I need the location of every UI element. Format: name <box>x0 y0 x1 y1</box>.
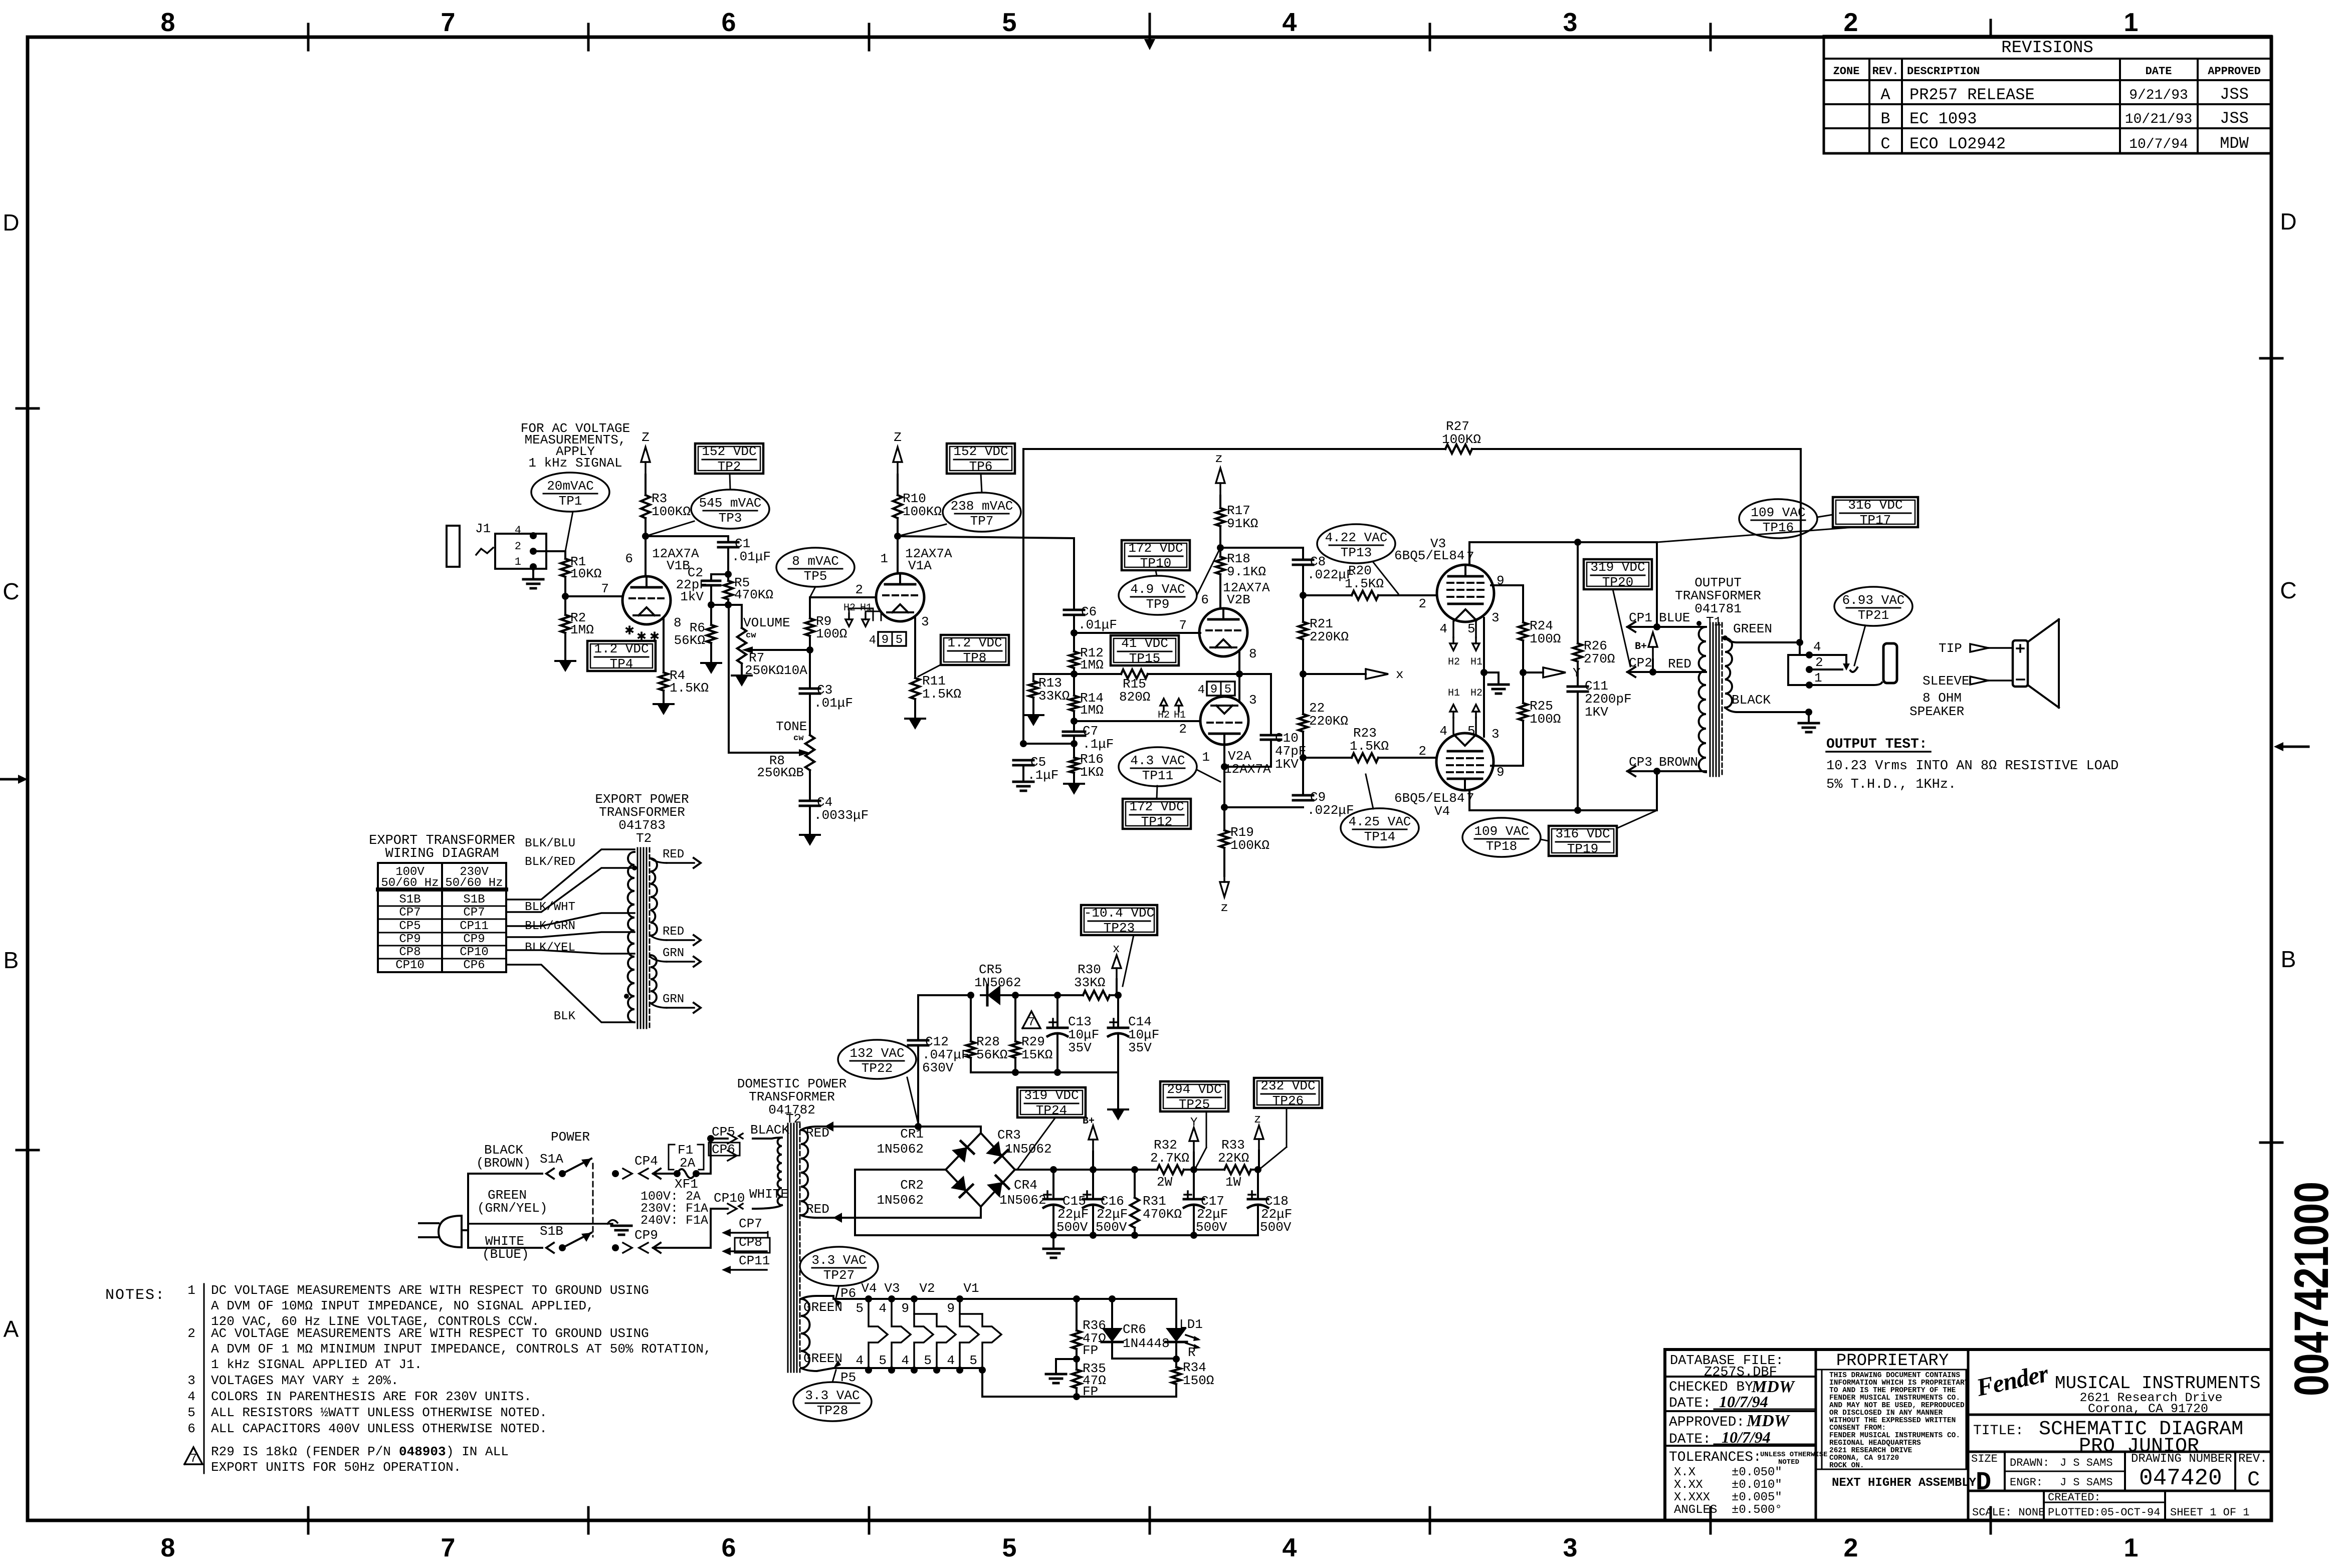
svg-text:-10.4 VDC: -10.4 VDC <box>1084 906 1154 921</box>
test point TP13 ellipse <box>1317 524 1395 563</box>
svg-text:2621 RESEARCH DRIVE: 2621 RESEARCH DRIVE <box>1829 1447 1912 1455</box>
svg-text:6: 6 <box>187 1421 195 1436</box>
svg-text:x: x <box>1396 667 1404 682</box>
heater secondary winding <box>801 1299 810 1368</box>
svg-text:PLOTTED:05-OCT-94: PLOTTED:05-OCT-94 <box>2048 1506 2160 1519</box>
svg-text:z: z <box>1220 900 1228 915</box>
svg-text:RED: RED <box>1668 656 1691 671</box>
svg-text:WITHOUT THE EXPRESSED WRITTEN: WITHOUT THE EXPRESSED WRITTEN <box>1829 1417 1956 1425</box>
test point TP18 ellipse <box>1462 818 1541 857</box>
svg-text:S1A: S1A <box>540 1152 563 1167</box>
svg-text:1MΩ: 1MΩ <box>570 622 594 637</box>
svg-text:TP27: TP27 <box>823 1268 855 1283</box>
svg-text:TP26: TP26 <box>1272 1093 1304 1108</box>
svg-text:TP15: TP15 <box>1129 651 1160 666</box>
svg-text:10/7/94: 10/7/94 <box>1719 1393 1768 1411</box>
svg-text:FP: FP <box>1083 1343 1098 1358</box>
svg-text:6: 6 <box>1201 592 1209 607</box>
svg-text:CP1: CP1 <box>1629 610 1652 625</box>
ground hook R35 <box>1056 1358 1077 1360</box>
Y arrow <box>1523 671 1543 674</box>
C10 coupling branch <box>1239 673 1271 675</box>
svg-text:H1: H1 <box>1174 710 1186 721</box>
svg-text:2.7KΩ: 2.7KΩ <box>1150 1151 1189 1166</box>
svg-text:10/7/94: 10/7/94 <box>1722 1428 1771 1446</box>
svg-text:TP21: TP21 <box>1858 608 1889 623</box>
test point TP22 ellipse <box>838 1040 916 1079</box>
svg-text:BLACK: BLACK <box>1732 693 1771 708</box>
svg-text:6BQ5/EL84: 6BQ5/EL84 <box>1394 548 1464 563</box>
svg-text:SHEET 1 OF 1: SHEET 1 OF 1 <box>2170 1506 2249 1519</box>
svg-text:2W: 2W <box>1157 1175 1173 1190</box>
svg-text:2: 2 <box>1418 596 1426 611</box>
svg-text:C: C <box>2280 577 2296 603</box>
resistor R24 100 <box>1519 622 1528 640</box>
svg-text:TP5: TP5 <box>804 569 827 584</box>
svg-text:V1B: V1B <box>667 558 690 573</box>
svg-text:500V: 500V <box>1196 1220 1227 1235</box>
svg-text:7: 7 <box>441 8 456 37</box>
resistor R19 100K <box>1223 807 1225 830</box>
svg-text:OUTPUT TEST:: OUTPUT TEST: <box>1826 737 1928 752</box>
capacitor C8 <box>1302 548 1304 560</box>
svg-text:3: 3 <box>1249 693 1257 708</box>
svg-text:4: 4 <box>1283 8 1297 37</box>
test point TP28 ellipse <box>793 1382 872 1421</box>
heater top rail to LED circuit <box>1077 1298 1176 1300</box>
leader TP19 <box>1618 810 1657 828</box>
leader TP20 <box>1613 589 1630 666</box>
svg-text:10.23 Vrms INTO AN 8Ω RESISTIV: 10.23 Vrms INTO AN 8Ω RESISTIVE LOAD <box>1826 759 2118 774</box>
svg-text:1: 1 <box>2124 8 2139 37</box>
svg-text:RED: RED <box>806 1202 829 1217</box>
wire tone wiper to C2 node <box>728 605 730 753</box>
diode CR2 <box>951 1176 966 1191</box>
title block database file cell <box>1665 1376 1816 1378</box>
svg-text:50/60 Hz: 50/60 Hz <box>445 876 503 890</box>
svg-text:CP5: CP5 <box>399 920 420 933</box>
svg-text:JSS: JSS <box>2220 109 2249 128</box>
svg-text:CP9: CP9 <box>399 933 420 946</box>
svg-text:1.2 VDC: 1.2 VDC <box>947 635 1002 650</box>
svg-text:CP5: CP5 <box>712 1125 735 1140</box>
ground below R2 <box>559 661 572 672</box>
svg-text:ALL RESISTORS ½WATT UNLESS OTH: ALL RESISTORS ½WATT UNLESS OTHERWISE NOT… <box>211 1405 547 1420</box>
heater jumper chevrons <box>869 1299 888 1370</box>
svg-text:4: 4 <box>869 634 876 647</box>
svg-text:56KΩ: 56KΩ <box>976 1047 1007 1062</box>
svg-text:BROWN: BROWN <box>1659 755 1698 770</box>
test point TP15 box <box>1111 635 1179 665</box>
leader TP22 <box>907 1077 918 1124</box>
scale cell <box>1968 1490 2271 1492</box>
svg-text:91KΩ: 91KΩ <box>1227 516 1258 531</box>
svg-text:MDW: MDW <box>2220 134 2249 153</box>
svg-text:1.5KΩ: 1.5KΩ <box>1350 739 1389 754</box>
svg-text:100Ω: 100Ω <box>816 626 847 641</box>
svg-text:7: 7 <box>441 1533 456 1562</box>
resistor R35 47 FP <box>1076 1359 1078 1370</box>
svg-text:316 VDC: 316 VDC <box>1555 826 1610 841</box>
capacitor C18 <box>1257 1170 1259 1199</box>
svg-text:470KΩ: 470KΩ <box>734 587 773 602</box>
svg-text:TONE: TONE <box>776 719 807 734</box>
svg-text:5: 5 <box>924 1353 932 1368</box>
svg-text:7: 7 <box>190 1452 197 1466</box>
svg-text:5: 5 <box>969 1353 977 1368</box>
heater bottom rail <box>981 1368 983 1397</box>
svg-text:X.X: X.X <box>1674 1466 1695 1479</box>
svg-text:5: 5 <box>896 633 903 647</box>
C12 bias branch <box>917 1046 919 1127</box>
svg-text:NOTED: NOTED <box>1778 1458 1799 1466</box>
svg-text:TP2: TP2 <box>718 459 741 474</box>
svg-text:REV.: REV. <box>1872 65 1899 78</box>
capacitor C15 <box>1052 1170 1054 1199</box>
svg-text:CP10: CP10 <box>714 1191 745 1206</box>
svg-text:UNLESS OTHERWISE: UNLESS OTHERWISE <box>1760 1451 1827 1459</box>
V4 screen wire <box>1491 765 1523 767</box>
svg-text:4.22 VAC: 4.22 VAC <box>1325 530 1388 545</box>
V2A cathode to R19 <box>1223 745 1225 767</box>
svg-text:4: 4 <box>1813 639 1821 654</box>
svg-text:5: 5 <box>879 1353 887 1368</box>
svg-text:BLK/WHT: BLK/WHT <box>525 901 575 914</box>
svg-text:0047421000: 0047421000 <box>2285 1182 2338 1396</box>
wire to V2A grid pin2 <box>1074 720 1200 722</box>
pentode V3 <box>1437 565 1494 622</box>
svg-text:8 mVAC: 8 mVAC <box>792 554 839 569</box>
svg-text:J S SAMS: J S SAMS <box>2060 1457 2113 1469</box>
OT core <box>1710 623 1711 776</box>
tube V4 <box>1436 733 1494 790</box>
speaker jack <box>1799 642 1801 655</box>
svg-text:✱: ✱ <box>624 625 634 638</box>
test point TP10 box <box>1122 540 1190 570</box>
HV secondary winding <box>801 1130 808 1215</box>
connector arrows CP4 <box>612 1170 619 1177</box>
resistor R36 47 FP <box>1076 1299 1078 1330</box>
svg-text:56KΩ: 56KΩ <box>674 633 705 648</box>
svg-text:(BLUE): (BLUE) <box>482 1247 529 1262</box>
leader TP23 <box>1123 935 1134 986</box>
svg-text:RED: RED <box>663 848 684 861</box>
zone ticks top border <box>307 24 310 50</box>
svg-text:820Ω: 820Ω <box>1119 690 1150 705</box>
svg-text:9: 9 <box>882 633 889 647</box>
svg-text:8: 8 <box>161 8 175 37</box>
svg-text:319 VDC: 319 VDC <box>1590 560 1645 575</box>
svg-text:7: 7 <box>1179 618 1187 633</box>
svg-text:ENGR:: ENGR: <box>2010 1476 2043 1489</box>
title cell <box>1968 1414 2271 1416</box>
svg-text:H2: H2 <box>1470 688 1482 699</box>
svg-text:CP3: CP3 <box>1629 755 1652 770</box>
svg-text:GRN: GRN <box>663 993 684 1006</box>
leader TP9 <box>1197 548 1220 595</box>
LED emission arrows <box>1186 1335 1198 1339</box>
svg-text:6: 6 <box>722 1533 736 1562</box>
svg-text:DRAWN:: DRAWN: <box>2010 1457 2049 1469</box>
zone ticks bottom border <box>307 1507 310 1533</box>
svg-text:SIZE: SIZE <box>1971 1453 1998 1465</box>
svg-text:4: 4 <box>1198 684 1205 697</box>
svg-text:CP10: CP10 <box>460 946 489 959</box>
svg-text:REGIONAL HEADQUARTERS: REGIONAL HEADQUARTERS <box>1829 1439 1921 1447</box>
svg-text:3: 3 <box>1563 1533 1578 1562</box>
svg-text:CP9: CP9 <box>634 1228 658 1243</box>
svg-text:2: 2 <box>515 540 521 553</box>
svg-text:10/7/94: 10/7/94 <box>2129 137 2188 152</box>
test point TP5 ellipse <box>776 548 855 587</box>
svg-text:5% T.H.D., 1KHz.: 5% T.H.D., 1KHz. <box>1826 777 1956 792</box>
heater chevron top steps <box>914 1313 937 1315</box>
CR6 bottom wire <box>1112 1358 1176 1360</box>
svg-text:1: 1 <box>1202 750 1210 765</box>
svg-text:.01μF: .01μF <box>814 696 853 711</box>
svg-text:100KΩ: 100KΩ <box>1442 432 1481 447</box>
wire jack to R1 <box>533 550 565 552</box>
svg-text:TITLE:: TITLE: <box>1973 1423 2024 1439</box>
svg-text:±0.010": ±0.010" <box>1732 1478 1782 1492</box>
CP6 stub <box>709 1143 740 1156</box>
jack switch wire from terminal 2 <box>1809 668 1842 670</box>
svg-text:VOLTAGES MAY VARY ± 20%.: VOLTAGES MAY VARY ± 20%. <box>211 1373 398 1388</box>
connector arrows CP9 <box>612 1244 619 1251</box>
svg-text:172 VDC: 172 VDC <box>1129 799 1184 814</box>
svg-text:S1B: S1B <box>540 1224 563 1239</box>
test point TP1 ellipse 20mVAC <box>531 473 609 512</box>
diode CR1 <box>952 1147 967 1163</box>
resistor R33 22K 1W <box>1224 1165 1251 1174</box>
svg-text:4: 4 <box>947 1353 955 1368</box>
resistor R3 100K <box>645 475 647 495</box>
resistor R30 33K <box>1057 994 1083 996</box>
svg-text:VOLUME: VOLUME <box>743 615 790 630</box>
svg-text:TIP: TIP <box>1939 641 1962 656</box>
svg-text:ZONE: ZONE <box>1833 65 1860 78</box>
feedback riser to jack <box>1800 449 1802 642</box>
svg-text:TP4: TP4 <box>610 656 633 671</box>
svg-text:8: 8 <box>161 1533 175 1562</box>
svg-text:500V: 500V <box>1260 1220 1292 1235</box>
svg-text:BLK/BLU: BLK/BLU <box>525 837 575 850</box>
svg-text:8 OHM: 8 OHM <box>1923 691 1962 706</box>
svg-text:3.3 VAC: 3.3 VAC <box>811 1253 866 1268</box>
svg-text:H2: H2 <box>1448 656 1460 668</box>
test point TP16 ellipse <box>1739 499 1817 538</box>
svg-text:220KΩ: 220KΩ <box>1309 714 1348 729</box>
svg-text:33KΩ: 33KΩ <box>1038 689 1070 704</box>
test point TP7 ellipse <box>943 493 1021 532</box>
svg-text:3: 3 <box>1563 8 1578 37</box>
svg-text:S1B: S1B <box>399 893 420 907</box>
V1A heater pins <box>878 632 906 646</box>
svg-text:A: A <box>4 1316 19 1342</box>
test point TP24 box <box>1017 1087 1086 1117</box>
svg-text:1KV: 1KV <box>1585 705 1608 720</box>
svg-text:V1A: V1A <box>908 558 932 573</box>
svg-text:22KΩ: 22KΩ <box>1218 1151 1249 1166</box>
svg-text:ECO LO2942: ECO LO2942 <box>1909 135 2006 153</box>
svg-text:.1μF: .1μF <box>1083 737 1114 752</box>
resistor R29 15K <box>1014 995 1016 1041</box>
svg-text:V2: V2 <box>919 1281 935 1296</box>
V4 plate to bottom rail <box>1468 790 1470 810</box>
plug wires <box>462 1229 468 1231</box>
svg-text:TP12: TP12 <box>1141 814 1172 829</box>
svg-text:T2: T2 <box>636 831 652 846</box>
domestic primary winding <box>778 1138 782 1205</box>
capacitor C17 <box>1193 1170 1195 1199</box>
leader TP1 <box>565 512 573 551</box>
test point TP27 ellipse <box>800 1247 878 1286</box>
svg-text:CP8: CP8 <box>399 946 420 959</box>
svg-text:cw: cw <box>793 734 804 743</box>
title block outer <box>1665 1350 2271 1520</box>
svg-text:DESCRIPTION: DESCRIPTION <box>1907 65 1980 78</box>
svg-text:A DVM OF 1 MΩ MINIMUM INPUT IM: A DVM OF 1 MΩ MINIMUM INPUT IMPEDANCE, C… <box>211 1341 712 1357</box>
svg-text:250KΩ10A: 250KΩ10A <box>745 663 807 678</box>
svg-text:) IN ALL: ) IN ALL <box>446 1444 509 1459</box>
triangle note 7 marker <box>1022 1011 1040 1028</box>
svg-text:152 VDC: 152 VDC <box>953 444 1008 459</box>
svg-text:4: 4 <box>1439 621 1447 636</box>
svg-text:12AX7A: 12AX7A <box>1224 762 1271 777</box>
svg-text:CR1: CR1 <box>900 1127 924 1142</box>
jack ground <box>532 569 534 579</box>
domestic transformer core <box>787 1124 789 1372</box>
svg-text:WHITE: WHITE <box>749 1187 788 1202</box>
diode CR5 <box>987 985 1000 1005</box>
svg-text:TP19: TP19 <box>1567 841 1598 856</box>
svg-text:INFORMATION WHICH IS PROPRIETA: INFORMATION WHICH IS PROPRIETARY <box>1829 1379 1969 1387</box>
title block checked by cell <box>1665 1410 1816 1412</box>
svg-text:9/21/93: 9/21/93 <box>2129 88 2188 103</box>
resistor R25 100 <box>1522 673 1524 703</box>
export secondary taps <box>651 858 667 863</box>
test point TP23 box <box>1081 905 1157 935</box>
svg-text:4.25 VAC: 4.25 VAC <box>1349 814 1411 829</box>
svg-text:4: 4 <box>1283 1533 1297 1562</box>
svg-text:1KΩ: 1KΩ <box>1080 765 1104 780</box>
svg-text:BLK/GRN: BLK/GRN <box>525 920 575 933</box>
diode CR3 <box>986 1141 1001 1157</box>
test point TP6 box <box>947 443 1015 474</box>
svg-text:.01μF: .01μF <box>732 549 771 564</box>
svg-text:A DVM OF 10MΩ INPUT IMPEDANCE,: A DVM OF 10MΩ INPUT IMPEDANCE, NO SIGNAL… <box>211 1298 594 1313</box>
svg-text:REVISIONS: REVISIONS <box>2001 39 2093 58</box>
svg-text:TP18: TP18 <box>1486 839 1517 854</box>
svg-text:2: 2 <box>187 1326 195 1341</box>
B+ filter rail <box>1050 1166 1057 1173</box>
resistor R6 56K <box>710 605 712 625</box>
svg-text:232 VDC: 232 VDC <box>1260 1078 1315 1093</box>
export secondary winding lower <box>651 955 657 1003</box>
svg-text:3: 3 <box>187 1373 195 1388</box>
X arrow node <box>1303 673 1366 675</box>
svg-text:1W: 1W <box>1225 1175 1241 1190</box>
svg-text:CP4: CP4 <box>634 1154 658 1169</box>
svg-text:100KΩ: 100KΩ <box>652 504 691 519</box>
svg-text:15KΩ: 15KΩ <box>1021 1047 1052 1062</box>
svg-text:z: z <box>1215 451 1223 466</box>
B+ rail risers to OT <box>1656 542 1658 627</box>
svg-text:100KΩ: 100KΩ <box>1230 838 1269 853</box>
export wiring table <box>378 863 506 972</box>
svg-text:PR257 RELEASE: PR257 RELEASE <box>1909 86 2035 104</box>
svg-text:1kV: 1kV <box>680 589 704 604</box>
svg-text:5: 5 <box>1002 1533 1017 1562</box>
resistor R31 470K <box>1134 1170 1136 1198</box>
svg-text:TO AND IS THE PROPERTY OF THE: TO AND IS THE PROPERTY OF THE <box>1829 1387 1956 1395</box>
wire V1A plate to C6 <box>898 536 1074 538</box>
resistor R26 270 <box>1577 542 1579 643</box>
svg-text:B: B <box>4 947 19 973</box>
svg-text:OR DISCLOSED IN ANY MANNER: OR DISCLOSED IN ANY MANNER <box>1829 1409 1943 1417</box>
svg-text:109 VAC: 109 VAC <box>1474 824 1529 839</box>
svg-text:.022μF: .022μF <box>1307 803 1354 818</box>
svg-text:6BQ5/EL84: 6BQ5/EL84 <box>1394 791 1464 806</box>
svg-text:4: 4 <box>856 1353 864 1368</box>
svg-text:CP11: CP11 <box>739 1253 770 1268</box>
svg-text:33KΩ: 33KΩ <box>1074 975 1105 990</box>
svg-text:±0.050": ±0.050" <box>1732 1466 1782 1479</box>
svg-text:R29 IS 18kΩ (FENDER P/N: R29 IS 18kΩ (FENDER P/N <box>211 1444 391 1459</box>
svg-text:S1B: S1B <box>463 893 485 907</box>
svg-text:V3: V3 <box>884 1281 900 1296</box>
CP3 BROWN <box>1627 770 1706 772</box>
svg-text:AC VOLTAGE MEASUREMENTS ARE WI: AC VOLTAGE MEASUREMENTS ARE WITH RESPECT… <box>211 1326 649 1341</box>
svg-text:NEXT HIGHER ASSEMBLY:: NEXT HIGHER ASSEMBLY: <box>1832 1476 1983 1490</box>
bridge connections <box>980 1127 982 1133</box>
svg-text:SCALE: NONE: SCALE: NONE <box>1972 1506 2045 1519</box>
svg-text:TP6: TP6 <box>969 459 993 474</box>
svg-text:1N5062: 1N5062 <box>999 1193 1046 1208</box>
svg-text:TP7: TP7 <box>970 514 994 529</box>
resistor R14 1M <box>1073 674 1075 696</box>
svg-text:PROPRIETARY: PROPRIETARY <box>1836 1352 1949 1371</box>
zone ticks right border <box>2260 357 2282 360</box>
svg-text:2: 2 <box>1844 1533 1858 1562</box>
test point TP20 box <box>1584 559 1652 589</box>
svg-text:V4: V4 <box>1434 804 1450 819</box>
resistor R13 33K <box>1032 674 1034 681</box>
svg-text:35V: 35V <box>1068 1040 1092 1055</box>
svg-text:2: 2 <box>855 582 863 597</box>
svg-text:BLUE: BLUE <box>1659 610 1690 625</box>
svg-text:C: C <box>1880 135 1890 153</box>
vertical drawing number 0047421000 <box>2285 1182 2338 1396</box>
svg-text:DATE:: DATE: <box>1669 1432 1711 1447</box>
svg-text:5: 5 <box>1224 683 1231 697</box>
svg-text:1: 1 <box>187 1283 195 1298</box>
svg-text:X.XXX: X.XXX <box>1674 1491 1710 1504</box>
svg-text:9: 9 <box>1210 683 1217 697</box>
resistor R28 56K <box>970 995 972 1041</box>
svg-text:20mVAC: 20mVAC <box>547 479 594 494</box>
triode V1B <box>645 536 647 576</box>
resistor R9 100 <box>809 597 811 618</box>
svg-text:5: 5 <box>1467 724 1475 739</box>
svg-text:C: C <box>3 578 19 604</box>
svg-text:CP7: CP7 <box>399 906 420 920</box>
volume pot R7 <box>741 605 743 628</box>
svg-text:RED: RED <box>663 925 684 939</box>
speaker <box>2013 640 2028 687</box>
test point TP12 box <box>1123 799 1191 829</box>
svg-text:7: 7 <box>1028 1016 1035 1029</box>
